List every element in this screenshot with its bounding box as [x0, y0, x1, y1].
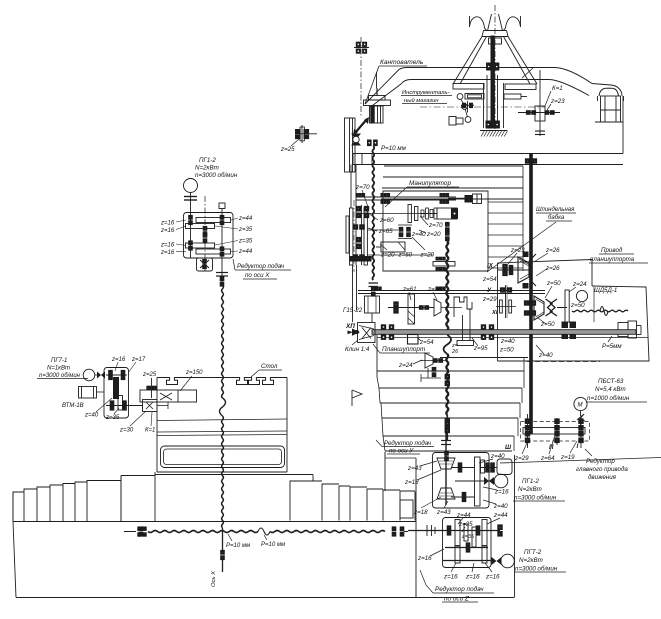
workpiece gripper (crown)	[470, 16, 487, 30]
motor coupling Z	[492, 557, 502, 565]
bevel cones on main shaft	[534, 296, 544, 320]
svg-text:z=25: z=25	[280, 146, 295, 153]
base	[12, 492, 14, 522]
svg-text:z=50: z=50	[546, 280, 561, 287]
svg-text:Г15-22: Г15-22	[343, 307, 363, 314]
svg-text:z=16: z=16	[465, 574, 480, 581]
table body	[156, 378, 158, 473]
svg-text:по оси У: по оси У	[389, 448, 414, 455]
ground under ram	[480, 130, 507, 132]
worm box K=1	[143, 400, 158, 412]
tool holder	[449, 117, 456, 126]
svg-text:n=3000 об/мин: n=3000 об/мин	[515, 566, 558, 573]
beam right end cap	[601, 96, 621, 122]
manipulator panel	[383, 191, 488, 271]
svg-text:z=16: z=16	[160, 228, 175, 234]
svg-text:z=19: z=19	[560, 454, 575, 461]
lower gear box	[197, 258, 213, 271]
svg-text:движения: движения	[588, 474, 617, 481]
svg-text:z=20: z=20	[380, 252, 395, 259]
svg-text:Планшуппорт: Планшуппорт	[382, 346, 426, 353]
svg-text:z=70: z=70	[355, 184, 370, 191]
svg-text:z=70: z=70	[428, 222, 443, 229]
svg-text:К=1: К=1	[145, 428, 155, 434]
top rail	[356, 196, 456, 198]
svg-text:z=24: z=24	[398, 362, 413, 369]
spindle stock body	[376, 335, 378, 377]
couplings below	[216, 272, 228, 274]
svg-text:n=3000 об/мин: n=3000 об/мин	[195, 172, 238, 179]
svg-text:І: І	[577, 443, 579, 450]
gear plates	[475, 457, 481, 506]
svg-text:z=54: z=54	[482, 276, 497, 283]
beam left end plate	[345, 118, 353, 172]
svg-text:Манипулятор: Манипулятор	[409, 180, 451, 187]
Y reducer panel edge	[384, 452, 386, 457]
svg-text:бабка: бабка	[548, 215, 565, 221]
planshaiba housing	[454, 297, 472, 317]
drive panel outline	[498, 286, 650, 361]
svg-text:z=30: z=30	[119, 428, 134, 434]
index gear	[467, 101, 469, 113]
feed screw (vertical, manipulator)	[372, 146, 374, 280]
bevel z26 on shaft VIII	[434, 299, 441, 316]
gears on bar left	[381, 325, 385, 329]
spindle head panel outline	[498, 260, 593, 331]
quill gears	[562, 322, 568, 328]
gripper centerline	[494, 5, 496, 62]
X feed screw vertical	[222, 285, 224, 398]
gripper arm	[448, 198, 466, 200]
lead screw wavy	[572, 310, 628, 312]
svg-text:z=18: z=18	[404, 479, 419, 486]
bar left wedge (Клин 1:4)	[358, 323, 376, 343]
z24 bevel under bar	[425, 353, 433, 368]
svg-text:z=60: z=60	[398, 252, 413, 259]
hydraulic cylinder	[381, 242, 405, 252]
svg-text:z=16: z=16	[417, 555, 432, 562]
svg-text:z=43: z=43	[407, 465, 422, 472]
gears on main vertical shaft	[525, 159, 536, 163]
svg-text:Р=10 мм: Р=10 мм	[381, 145, 407, 152]
svg-text:z=16: z=16	[160, 243, 175, 249]
svg-text:z=35: z=35	[238, 239, 253, 245]
svg-text:z=44: z=44	[238, 216, 253, 222]
svg-text:z=23: z=23	[510, 247, 525, 254]
svg-text:Ось Х: Ось Х	[211, 570, 217, 587]
table reducer box	[104, 368, 129, 419]
bell inner outline	[371, 80, 590, 108]
svg-text:ПГ1-2: ПГ1-2	[199, 157, 216, 164]
output shaft	[106, 405, 143, 407]
svg-text:К=1: К=1	[552, 85, 563, 92]
beam body	[353, 153, 623, 155]
z61 plate	[408, 294, 415, 324]
svg-text:Редуктор подач: Редуктор подач	[435, 585, 484, 593]
manipulator spindle unit	[437, 208, 457, 219]
quill end	[618, 323, 628, 337]
svg-text:Р=10 мм: Р=10 мм	[261, 542, 285, 548]
svg-text:z=24: z=24	[572, 281, 587, 288]
Y reducer box	[433, 453, 490, 509]
tilter legs	[370, 106, 384, 123]
svg-text:ВТМ-1В: ВТМ-1В	[62, 403, 84, 409]
svg-text:ПГТ-2: ПГТ-2	[524, 549, 542, 556]
svg-text:Клин 1:4: Клин 1:4	[345, 346, 370, 353]
svg-text:n=3000 об/мин: n=3000 об/мин	[514, 495, 557, 502]
svg-text:ХП: ХП	[345, 323, 355, 330]
vertical ball screw (center)	[446, 241, 448, 330]
svg-text:z=40: z=40	[500, 338, 515, 345]
svg-text:z=44: z=44	[493, 512, 508, 519]
svg-text:главного привода: главного привода	[576, 466, 628, 473]
bevel pair lower	[437, 488, 455, 499]
svg-text:Ш: Ш	[505, 444, 512, 451]
stepper drive ШД5Д-1	[565, 290, 569, 322]
svg-text:N=2кВт: N=2кВт	[518, 486, 542, 493]
svg-text:Р=10 мм: Р=10 мм	[226, 543, 250, 549]
z=54 guide block	[408, 335, 419, 345]
right staircase way covers	[290, 481, 322, 521]
svg-text:N=2кВт: N=2кВт	[519, 557, 543, 564]
bevel pair z26/z26	[518, 257, 529, 283]
tilter axis	[360, 37, 362, 117]
motor coupling Y	[484, 477, 494, 485]
bevel pair upper	[437, 458, 455, 469]
Z input shaft	[408, 530, 500, 532]
shafts	[190, 205, 192, 258]
svg-text:z=16: z=16	[443, 574, 458, 581]
gear cluster on shaft	[394, 302, 398, 313]
gears on bar right	[481, 325, 485, 329]
leader tick on bell	[522, 68, 533, 78]
svg-text:z=16: z=16	[160, 250, 175, 256]
main vertical shaft	[530, 154, 533, 434]
svg-text:z=43: z=43	[436, 509, 451, 516]
lower panel boundary	[500, 458, 661, 464]
Z feed reducer box	[443, 518, 492, 568]
brake unit z40	[497, 459, 512, 475]
svg-text:Привод: Привод	[601, 247, 623, 254]
column guideway bands	[384, 165, 523, 167]
svg-text:z=40: z=40	[84, 413, 99, 419]
gears on ram	[487, 63, 491, 70]
svg-text:ПБСТ-63: ПБСТ-63	[598, 378, 624, 385]
svg-text:ный магазин: ный магазин	[404, 97, 439, 104]
svg-text:z=29: z=29	[514, 455, 529, 462]
svg-text:Редуктор подач: Редуктор подач	[384, 440, 432, 447]
magazine bars	[453, 84, 484, 90]
svg-text:z=50: z=50	[570, 302, 585, 309]
table pedestal	[155, 474, 313, 476]
hydraulic motor Г15-22	[365, 296, 380, 313]
spindle head input shaft	[498, 269, 532, 271]
svg-text:z=23: z=23	[550, 98, 565, 105]
X reducer box	[184, 213, 234, 259]
svg-text:ШД5Д-1: ШД5Д-1	[594, 287, 617, 294]
svg-text:n=1000 об/мин: n=1000 об/мин	[587, 395, 630, 402]
svg-text:z=50: z=50	[540, 321, 555, 328]
gripper legs	[453, 37, 482, 85]
jaw clutch	[546, 299, 553, 316]
svg-text:Инструменталь-: Инструменталь-	[402, 90, 450, 96]
svg-text:z=29: z=29	[482, 296, 497, 303]
svg-text:ПГ7-1: ПГ7-1	[51, 358, 67, 364]
svg-text:z=44: z=44	[238, 249, 253, 255]
tilter platform	[369, 96, 386, 101]
svg-text:z=95: z=95	[473, 345, 488, 352]
coupling	[369, 282, 379, 284]
main drive gear train	[521, 422, 590, 442]
svg-text:z=17: z=17	[131, 357, 146, 363]
motor ПГ1-2 (Y)	[494, 474, 508, 488]
rack z150	[140, 390, 197, 402]
svg-text:z=65: z=65	[378, 228, 393, 235]
left gear column plates	[350, 165, 352, 209]
tilt arrow	[355, 119, 367, 133]
svg-text:по оси Х: по оси Х	[245, 272, 270, 279]
z25 idler gear	[301, 125, 303, 143]
svg-text:z=16: z=16	[160, 221, 175, 227]
table top with T-slots	[157, 378, 287, 385]
svg-text:z=26: z=26	[545, 247, 560, 254]
z25 pinion on rack	[151, 378, 153, 398]
horizontal feed screw	[124, 531, 136, 533]
svg-text:Редуктор подач: Редуктор подач	[237, 263, 285, 270]
svg-text:z=44: z=44	[456, 512, 471, 519]
svg-text:26: 26	[451, 349, 459, 355]
tilter bracket plate	[350, 118, 356, 172]
svg-text:z=35: z=35	[105, 415, 120, 421]
svg-text:М: М	[578, 403, 583, 409]
svg-text:z=20: z=20	[420, 252, 435, 259]
gear stack under spindle	[446, 222, 450, 231]
servo motor ВТМ-1В	[79, 387, 97, 399]
svg-text:z=25: z=25	[142, 372, 157, 378]
bell outer outline	[365, 68, 622, 105]
magazine centerline	[420, 106, 545, 108]
svg-text:z=35: z=35	[238, 227, 253, 233]
svg-text:N=1кВт: N=1кВт	[47, 366, 70, 372]
svg-text:z=26: z=26	[427, 286, 442, 293]
svg-text:z=16: z=16	[485, 574, 500, 581]
vertical shaft XI	[505, 285, 507, 318]
svg-text:z=20: z=20	[426, 231, 441, 238]
boring bar	[372, 330, 636, 335]
left staircase way covers	[13, 492, 24, 522]
svg-text:ПГ1-2: ПГ1-2	[522, 478, 539, 485]
svg-text:Стол: Стол	[261, 363, 278, 370]
svg-text:z=60: z=60	[379, 217, 394, 224]
svg-text:z=50: z=50	[499, 347, 514, 354]
svg-text:Кантователь: Кантователь	[380, 59, 424, 66]
Z gear plates	[455, 520, 460, 546]
svg-text:Р=5мм: Р=5мм	[602, 343, 622, 350]
svg-text:Шпиндельная: Шпиндельная	[536, 207, 575, 213]
spindle ram (central column)	[483, 83, 485, 128]
gear slabs	[196, 218, 231, 223]
gear z on tilter axis	[354, 47, 369, 49]
svg-text:по оси Z: по оси Z	[444, 596, 470, 603]
svg-text:планшуппорта: планшуппорта	[590, 256, 635, 263]
z40 gear cluster	[399, 227, 403, 236]
vertical shaft with coupling	[445, 433, 447, 505]
svg-text:N=5,4 кВт: N=5,4 кВт	[595, 386, 626, 393]
tool chain links	[457, 94, 463, 100]
svg-text:z=16: z=16	[111, 357, 126, 363]
svg-text:n=3000 об/мин: n=3000 об/мин	[39, 373, 81, 379]
flag marker	[352, 390, 362, 406]
tilter pivot	[351, 134, 361, 146]
svg-text:ХІ: ХІ	[491, 310, 498, 316]
svg-text:z=54: z=54	[419, 339, 434, 346]
panel inner divider	[593, 287, 595, 322]
bottom rail	[358, 290, 545, 292]
svg-text:N=2кВт: N=2кВт	[195, 165, 219, 172]
svg-text:z=40: z=40	[538, 352, 553, 359]
motor ПГТ-2 (Z)	[501, 554, 515, 568]
feed screw coupling blocks	[368, 140, 372, 146]
svg-text:ІХ: ІХ	[487, 263, 494, 270]
svg-text:z=150: z=150	[185, 370, 203, 376]
